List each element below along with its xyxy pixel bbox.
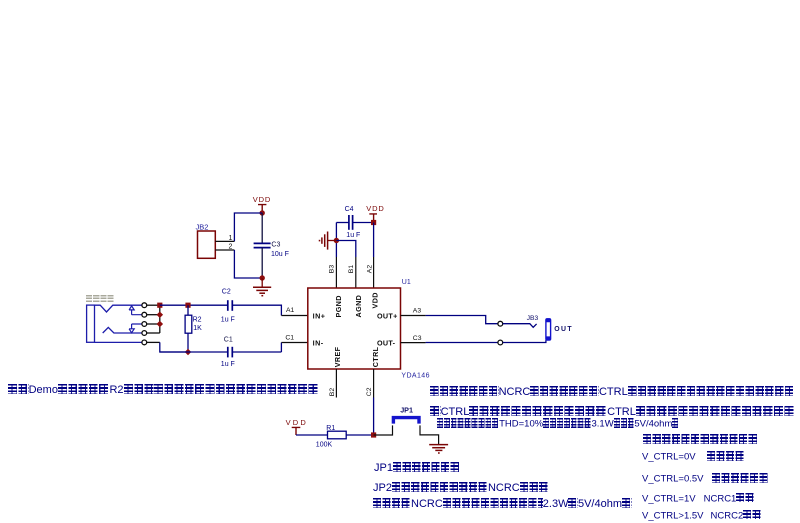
node R2 bottom junction bbox=[185, 349, 192, 356]
node ground junction on B3 riser bbox=[334, 238, 339, 243]
wires jack pins to bus column bbox=[147, 305, 160, 342]
resistor R1 bbox=[316, 425, 346, 449]
svg-text:AGND: AGND bbox=[354, 295, 363, 318]
svg-text:OUT+: OUT+ bbox=[377, 311, 398, 320]
svg-text:2: 2 bbox=[229, 243, 233, 250]
wire C4 right to VDD node bbox=[353, 222, 374, 224]
node CTRL junction (square) bbox=[371, 432, 376, 437]
node jack bus junction 2 bbox=[157, 311, 164, 318]
connector JB2 bbox=[196, 222, 216, 258]
jack tip contact with switch notch bbox=[95, 305, 142, 312]
svg-text:C3: C3 bbox=[271, 242, 280, 249]
pin stub OUT- bbox=[401, 342, 426, 344]
svg-text:VDD: VDD bbox=[370, 292, 379, 308]
wire terminal to jack JB3 sleeve bbox=[503, 340, 546, 342]
note: V_CTRL=1V NCRC1 mode bbox=[642, 493, 755, 505]
svg-text:1: 1 bbox=[229, 235, 233, 242]
svg-text:B3: B3 bbox=[329, 265, 336, 274]
power symbol VDD (at R1) bbox=[286, 418, 308, 435]
wire sleeve down to bottom net bbox=[160, 342, 188, 352]
wire VDD to R1 bbox=[296, 434, 328, 436]
node jack bus junction 3 bbox=[157, 321, 164, 328]
svg-text:VDD: VDD bbox=[253, 195, 271, 204]
jack terminal pins (5 circles) bbox=[142, 303, 147, 345]
op-amp / amplifier IC U1 YDA146 body bbox=[308, 288, 401, 369]
svg-text:C1: C1 bbox=[285, 335, 294, 342]
wire OUT+ to terminal bbox=[426, 316, 498, 324]
svg-text:A1: A1 bbox=[286, 307, 295, 314]
terminal circle OUT+ bbox=[498, 321, 503, 326]
note: control voltage list heading bbox=[643, 434, 758, 446]
node C3 bottom junction bbox=[260, 275, 265, 280]
svg-text:IN+: IN+ bbox=[313, 311, 326, 320]
jack sleeve contact bbox=[95, 341, 142, 343]
ground (sideways, near C4) bbox=[320, 232, 337, 250]
svg-text:YDA146: YDA146 bbox=[401, 373, 429, 380]
svg-text:JP1: JP1 bbox=[400, 405, 413, 414]
svg-text:R2: R2 bbox=[193, 317, 202, 324]
svg-text:JB3: JB3 bbox=[527, 315, 539, 322]
pin stub OUT+ bbox=[401, 315, 426, 317]
wire JP1 right leg to ground bbox=[420, 425, 439, 444]
svg-text:10u F: 10u F bbox=[271, 251, 289, 258]
jack tip switch arrow (up) bbox=[129, 306, 142, 315]
svg-text:100K: 100K bbox=[316, 442, 333, 449]
pin 1 of JB2 bbox=[215, 235, 234, 242]
note: V_CTRL=0V off mode bbox=[642, 451, 745, 463]
svg-text:CTRL: CTRL bbox=[371, 346, 380, 367]
svg-text:R1: R1 bbox=[326, 425, 335, 432]
note: V_CTRL=0.5V normal mode bbox=[642, 473, 769, 485]
svg-text:C3: C3 bbox=[413, 335, 422, 342]
terminal circle OUT- bbox=[498, 340, 503, 345]
wire JB2 pin2 to ground rail bbox=[234, 250, 262, 278]
svg-text:A3: A3 bbox=[413, 307, 422, 314]
note: normal mode THD output power line 3 (right) bbox=[437, 418, 679, 430]
svg-text:1u F: 1u F bbox=[221, 361, 235, 368]
node VDD / C3 top junction bbox=[260, 210, 265, 215]
pin stub C2 (CTRL, below IC) bbox=[373, 369, 375, 398]
wire bottom input net bbox=[160, 351, 282, 353]
svg-text:OUT-: OUT- bbox=[377, 338, 396, 347]
note: NCRC max output power line bbox=[373, 498, 632, 510]
label "audio interface" (gray CJK) bbox=[86, 292, 115, 304]
svg-text:C4: C4 bbox=[345, 206, 354, 213]
svg-text:PGND: PGND bbox=[334, 295, 343, 317]
wire C2 to IN+ bbox=[232, 305, 281, 315]
wire R1 to CTRL junction bbox=[346, 434, 373, 436]
svg-text:B2: B2 bbox=[329, 388, 336, 397]
note: demo board R2 resistor remark (left) bbox=[8, 384, 319, 396]
wire B3 riser (PGND) bbox=[335, 223, 337, 258]
svg-text:1K: 1K bbox=[193, 325, 202, 332]
note: CTRL divider remark line 2 (right) bbox=[430, 406, 795, 418]
svg-text:U1: U1 bbox=[402, 279, 411, 286]
wire terminal to jack JB3 tip (with notch) bbox=[503, 324, 537, 328]
power symbol VDD (above A2 pin) bbox=[366, 204, 384, 222]
capacitor C4 bbox=[345, 206, 361, 239]
wire OUT- to terminal bbox=[426, 342, 498, 344]
audio jack connector (input) body bbox=[87, 305, 95, 342]
output jack JB3 (plug symbol) bbox=[546, 318, 552, 340]
ground (below C3) bbox=[253, 278, 271, 296]
wire junction to JP1 left leg bbox=[374, 425, 393, 435]
ground (below JP1) bbox=[429, 445, 448, 453]
resistor R2 bbox=[185, 305, 202, 352]
jumper JP1 (thick bracket) bbox=[393, 418, 419, 424]
jack ring contact bbox=[103, 327, 142, 333]
svg-text:VDD: VDD bbox=[366, 204, 384, 213]
wire VDD rail to JB2 pin1 bbox=[234, 213, 262, 241]
svg-text:VDD: VDD bbox=[286, 418, 308, 427]
svg-text:JB2: JB2 bbox=[196, 222, 209, 231]
wire A2 riser (VDD) bbox=[373, 223, 375, 258]
svg-text:OUT: OUT bbox=[554, 326, 573, 333]
note: V_CTRL>1.5V NCRC2 mode bbox=[642, 510, 762, 522]
svg-text:1u F: 1u F bbox=[221, 317, 235, 324]
note: NCRC function remark line 1 (right) bbox=[430, 386, 794, 398]
capacitor C2 bbox=[221, 289, 235, 324]
note: JP2 open mute mode line bbox=[373, 482, 549, 494]
wire C4 left to PGND riser bbox=[336, 222, 349, 224]
wire ground junction to B1 riser (AGND) bbox=[336, 241, 355, 258]
svg-text:IN-: IN- bbox=[313, 338, 324, 347]
power symbol VDD (top left) bbox=[253, 195, 271, 213]
svg-text:A2: A2 bbox=[367, 265, 374, 274]
svg-text:1u F: 1u F bbox=[346, 232, 360, 239]
capacitor C3 bbox=[254, 213, 289, 278]
wire top input net bbox=[160, 304, 228, 306]
note: JP1 closed mode line bbox=[374, 462, 460, 474]
svg-text:C2: C2 bbox=[222, 289, 231, 296]
node R2 top junction (square) bbox=[185, 303, 190, 308]
pin 2 of JB2 bbox=[215, 243, 234, 250]
capacitor C1 bbox=[221, 337, 235, 369]
svg-text:C1: C1 bbox=[224, 337, 233, 344]
svg-text:B1: B1 bbox=[348, 265, 355, 274]
jack ring switch arrow (down) bbox=[129, 324, 142, 333]
svg-text:C2: C2 bbox=[366, 387, 373, 396]
node jack bus junction (square) bbox=[157, 303, 162, 308]
wire CTRL riser bbox=[373, 398, 375, 436]
svg-text:VREF: VREF bbox=[333, 346, 342, 367]
wire C1 to IN- bbox=[280, 343, 282, 353]
node VDD at A2 riser bbox=[371, 220, 376, 225]
pin stub B2 (VREF, below IC) bbox=[335, 369, 337, 398]
